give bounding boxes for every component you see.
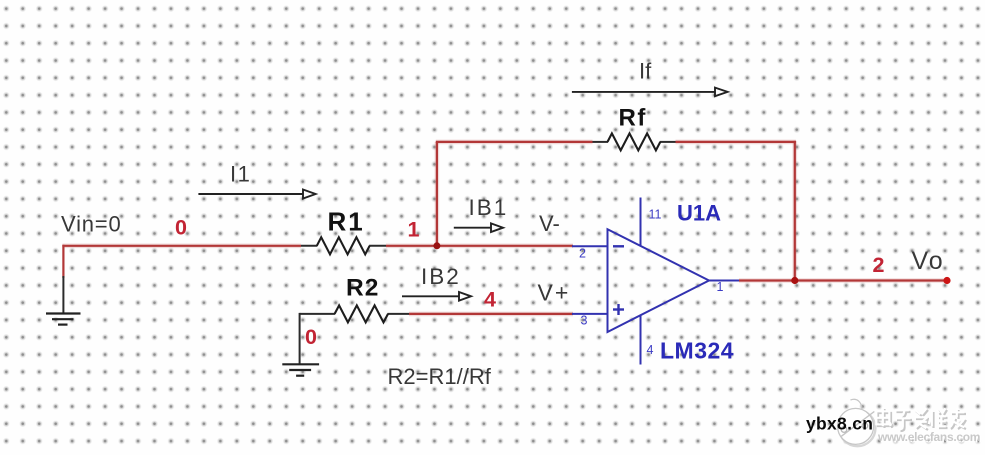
svg-text:0: 0 [305,325,317,349]
svg-text:ybx8.cn: ybx8.cn [806,414,873,434]
svg-text:R2=R1//Rf: R2=R1//Rf [388,364,492,389]
svg-text:R2: R2 [346,275,379,302]
svg-text:U1A: U1A [677,201,721,226]
svg-text:LM324: LM324 [660,338,734,364]
svg-text:Rf: Rf [619,104,647,131]
svg-text:www.elecfans.com: www.elecfans.com [877,430,980,444]
svg-text:If: If [639,58,652,83]
svg-text:2: 2 [579,247,586,261]
svg-text:4: 4 [647,343,654,357]
svg-text:1: 1 [408,218,420,242]
svg-text:Vin=0: Vin=0 [61,212,121,237]
svg-text:4: 4 [484,288,496,312]
svg-text:I1: I1 [230,162,251,187]
svg-text:IB1: IB1 [469,195,509,220]
svg-text:V+: V+ [538,280,571,306]
svg-text:1: 1 [717,280,724,294]
svg-text:11: 11 [649,208,662,222]
svg-text:3: 3 [581,314,588,328]
svg-text:2: 2 [873,253,885,277]
svg-text:R1: R1 [328,207,365,237]
svg-text:0: 0 [175,216,187,240]
svg-text:Vo: Vo [912,247,945,275]
svg-text:V-: V- [539,211,560,236]
svg-text:IB2: IB2 [421,264,461,289]
